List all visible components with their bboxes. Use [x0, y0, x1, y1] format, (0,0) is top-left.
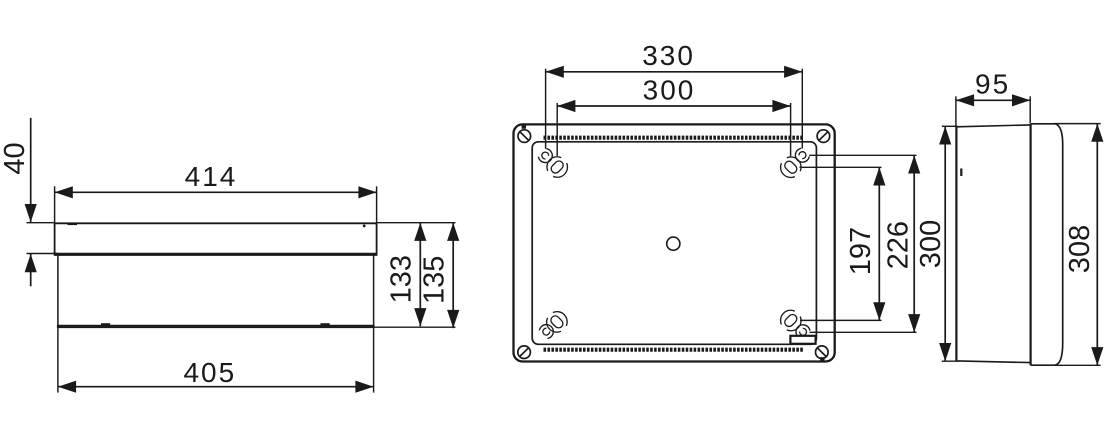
back view corner screw bottom-left — [518, 346, 531, 359]
side view lid outline — [1031, 124, 1063, 365]
back view corner screw bottom-right — [816, 346, 829, 359]
back view corner screw top-right — [817, 130, 830, 143]
back view centre hole — [667, 237, 680, 250]
dimension 133-135 extension lines — [377, 222, 456, 224]
dimension 330 line — [546, 71, 803, 73]
dimension 40 extension lines — [27, 222, 55, 224]
svg-text:95: 95 — [975, 69, 1010, 100]
svg-text:197: 197 — [845, 227, 877, 275]
back view mounting oblong bottom-left — [543, 308, 571, 336]
dimension 414 extension lines — [54, 186, 56, 223]
svg-text:135: 135 — [419, 256, 451, 304]
side view body outline — [955, 127, 957, 361]
dimension 197 extension lines — [800, 166, 882, 168]
dimension 95 extension lines — [955, 96, 957, 126]
dimension 300 vertical line — [944, 126, 946, 361]
back view mounting hole circle top-right — [799, 152, 806, 159]
dimension 135 line — [452, 223, 454, 328]
dimension 226 extension lines — [809, 154, 916, 156]
front view lid latch dot — [363, 225, 366, 228]
back view inner outline — [532, 142, 816, 344]
side view parting tick — [960, 169, 962, 177]
dimension 405 extension lines — [57, 328, 59, 393]
front view lid seam nick — [68, 224, 78, 226]
svg-text:300: 300 — [915, 220, 947, 268]
dimension 414 line — [55, 191, 377, 193]
dimension 133 line — [419, 223, 421, 327]
svg-text:300: 300 — [643, 75, 696, 106]
svg-text:414: 414 — [185, 161, 238, 192]
svg-text:308: 308 — [1064, 225, 1096, 273]
dimension 197 line — [878, 167, 880, 320]
svg-text:330: 330 — [642, 40, 695, 71]
dimension 300 vertical extension lines — [942, 125, 958, 127]
back view outer outline — [514, 124, 835, 361]
back view top vent strip — [544, 136, 805, 140]
dimension 308 line — [1096, 124, 1098, 366]
dimension 226 line — [913, 155, 915, 332]
back view bottom vent strip — [544, 348, 805, 352]
back view mounting oblong top-left — [543, 153, 571, 181]
dimension 330 extension lines — [545, 69, 547, 149]
back view mounting hole circle top-left — [542, 152, 549, 159]
dimension 95 line — [956, 99, 1030, 101]
front view left foot — [101, 323, 110, 326]
svg-text:40: 40 — [0, 142, 31, 174]
svg-text:405: 405 — [183, 357, 236, 388]
back view cable tab bottom-right — [790, 336, 815, 344]
back view corner screw top-left — [518, 130, 531, 143]
front view right foot — [321, 323, 330, 326]
back view mounting hole circle bottom-right — [800, 328, 807, 335]
back view mounting oblong top-right — [777, 153, 805, 181]
svg-text:226: 226 — [882, 221, 914, 269]
side view body-lid divider — [1029, 124, 1031, 365]
dimension 300 line — [557, 105, 790, 107]
back view mounting hole circle bottom-left — [543, 328, 550, 335]
front view body outline — [57, 254, 59, 326]
back view mounting oblong bottom-right — [777, 307, 805, 335]
svg-text:133: 133 — [385, 255, 417, 303]
dimension 300 extension lines — [556, 103, 558, 156]
front view lid outline — [55, 222, 377, 224]
dimension 405 line — [58, 386, 374, 388]
dimension 40 line and arrows — [30, 118, 32, 222]
dimension 308 extension lines — [1053, 123, 1101, 125]
